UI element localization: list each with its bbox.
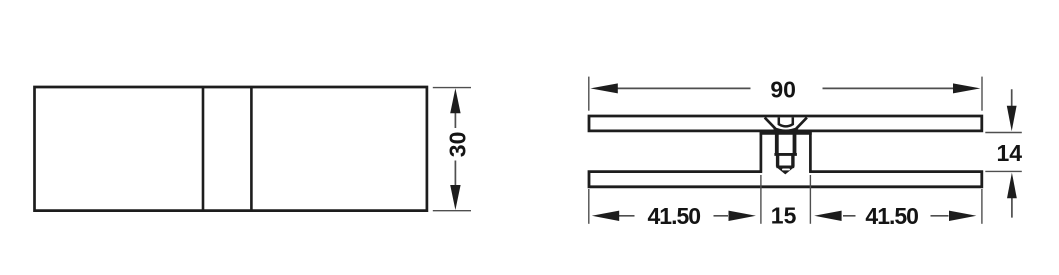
svg-text:14: 14 <box>997 140 1023 166</box>
svg-text:41.50: 41.50 <box>648 203 701 229</box>
svg-text:15: 15 <box>771 203 797 229</box>
svg-text:90: 90 <box>770 76 796 102</box>
svg-text:41.50: 41.50 <box>865 203 918 229</box>
svg-text:30: 30 <box>444 132 470 158</box>
